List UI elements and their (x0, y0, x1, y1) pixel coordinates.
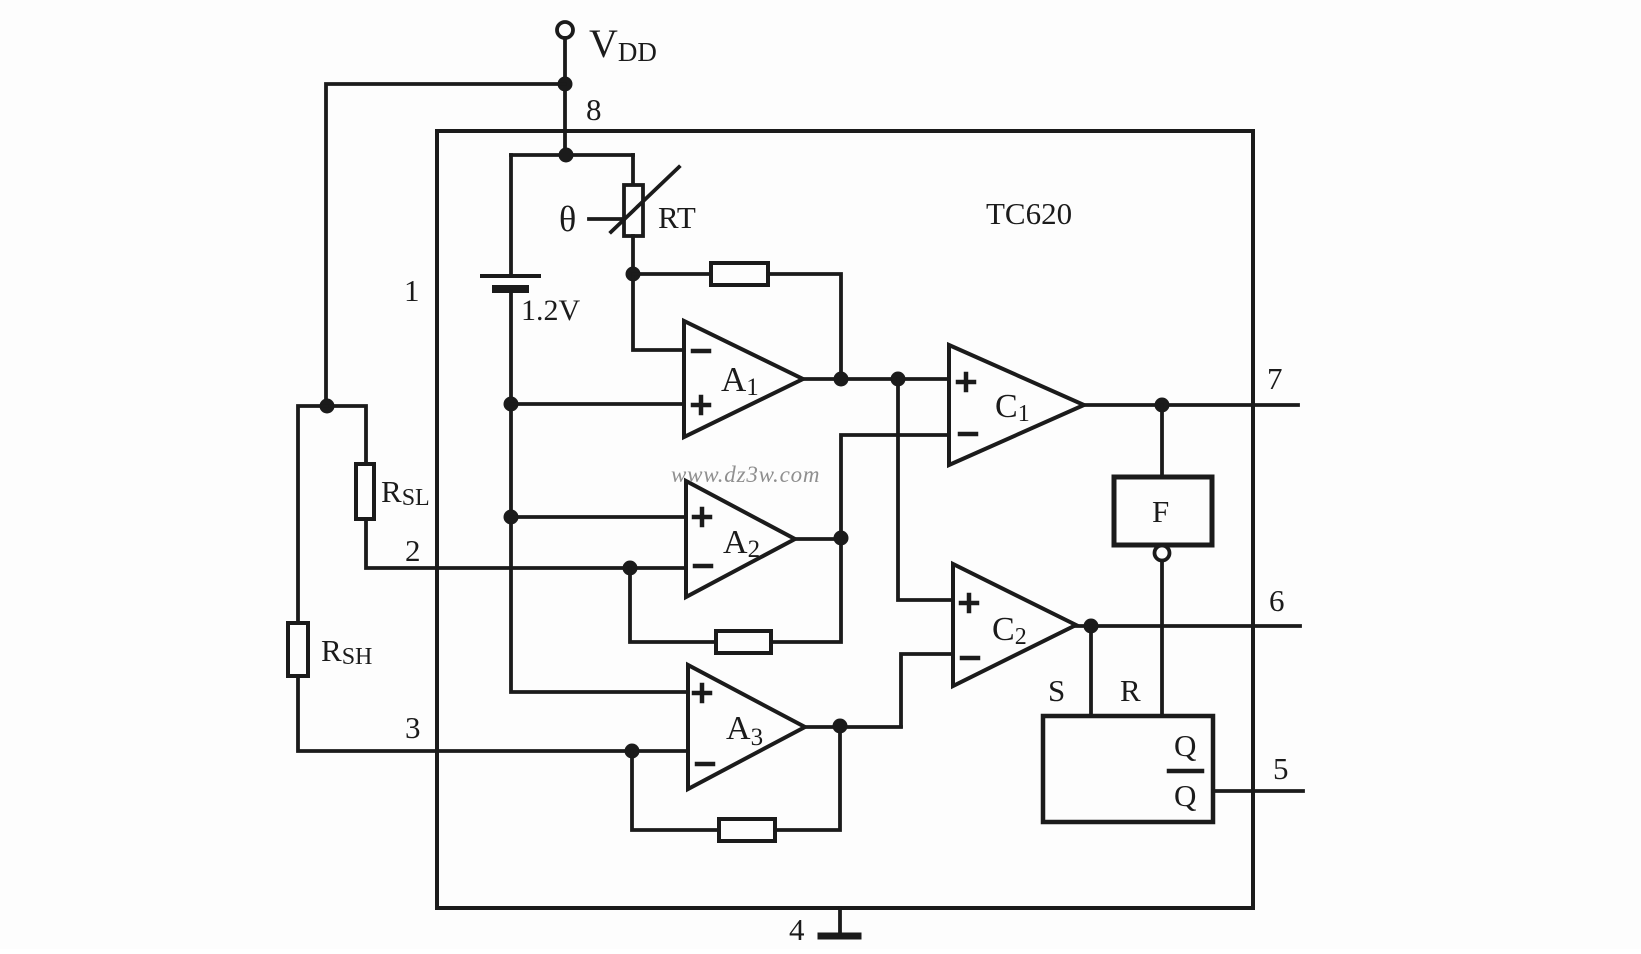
svg-text:RSH: RSH (321, 633, 372, 670)
node C1 output junction (1155, 398, 1170, 413)
wire A2 minus input (630, 566, 686, 570)
node A2 output junction (834, 531, 849, 546)
A3 plus sign (694, 685, 710, 701)
node RT bottom junction (626, 267, 641, 282)
svg-text:F: F (1152, 494, 1169, 529)
battery 1.2V short plate (496, 285, 525, 293)
node internal VDD junction (559, 148, 574, 163)
resistor RSL body (356, 464, 374, 519)
node A1 feedback junction (834, 372, 849, 387)
wire RT bottom (631, 236, 635, 274)
node pin3 junction (625, 744, 640, 759)
battery 1.2V long plate (482, 274, 539, 278)
svg-text:www.dz3w.com: www.dz3w.com (671, 462, 820, 487)
resistor A1 feedback right wire (768, 274, 841, 379)
A2 plus sign (694, 509, 710, 525)
C1 plus sign (958, 374, 974, 390)
thermistor RT body (624, 185, 643, 236)
resistor RSH body (288, 623, 308, 676)
svg-text:Q: Q (1174, 778, 1196, 813)
svg-text:Q: Q (1174, 728, 1196, 763)
resistor A3 feedback left wire (632, 751, 719, 830)
C2 minus sign (962, 656, 978, 661)
wire A2 output (795, 537, 841, 541)
svg-text:S: S (1048, 673, 1065, 708)
svg-text:VDD: VDD (589, 21, 657, 67)
thermistor RT top wire (631, 155, 635, 185)
wire battery reference rail (511, 291, 688, 692)
wire A3 output (805, 725, 901, 729)
wire A1 minus input (633, 274, 684, 350)
node pin2 junction (623, 561, 638, 576)
wire RSL to pin2 (366, 519, 630, 568)
ground pin4 stem (838, 908, 842, 933)
svg-text:5: 5 (1273, 751, 1289, 786)
resistor A1 feedback left wire (633, 272, 711, 276)
terminal VDD circle (557, 22, 573, 38)
resistor A2 feedback right wire (771, 538, 841, 642)
op-amp A3 (688, 665, 805, 789)
comparator C1 (949, 345, 1084, 465)
resistor A1 feedback body (711, 263, 768, 285)
wire RSH to pin3 (298, 676, 632, 751)
wire VDD vertical (563, 38, 567, 155)
resistor A3 feedback right wire (775, 726, 840, 830)
wire C1 to F (1160, 405, 1164, 477)
node A1 to C2 junction (891, 372, 906, 387)
wire C2 output pin6 (1076, 624, 1300, 628)
ground bar (821, 933, 858, 940)
resistor RSL top wire (327, 406, 366, 464)
svg-text:7: 7 (1267, 361, 1283, 396)
resistor A2 feedback body (716, 631, 771, 653)
node A3 output junction (833, 719, 848, 734)
node left branch junction (320, 399, 335, 414)
svg-text:R: R (1120, 673, 1141, 708)
resistor A2 feedback left wire (630, 568, 716, 642)
svg-text:θ: θ (559, 199, 576, 239)
A2 minus sign (695, 564, 711, 569)
op-amp A1 (684, 321, 803, 437)
comparator C2 (953, 564, 1076, 686)
wire internal VDD rail (511, 153, 633, 157)
wire A3 minus input (632, 749, 688, 753)
wire ref to A1+ (511, 402, 684, 406)
wire F to R input (1160, 561, 1164, 716)
resistor RSH top wire (298, 406, 327, 623)
svg-text:6: 6 (1269, 583, 1285, 618)
block F (1114, 477, 1212, 545)
wire C2 to S input (1089, 626, 1093, 716)
A1 plus sign (693, 397, 709, 413)
C1 minus sign (960, 432, 976, 437)
wire A2 to C1 minus (841, 435, 949, 538)
op-amp A2 (686, 481, 795, 597)
svg-text:RSL: RSL (381, 474, 430, 511)
node C2 output junction (1084, 619, 1099, 634)
svg-text:2: 2 (405, 533, 421, 568)
svg-text:TC620: TC620 (986, 196, 1072, 231)
wire Qbar output pin5 (1213, 789, 1303, 793)
C2 plus sign (961, 595, 977, 611)
wire ref to A2+ (511, 515, 686, 519)
A1 minus sign (693, 349, 709, 354)
node VDD junction (558, 77, 573, 92)
svg-text:1: 1 (404, 273, 420, 308)
IC box TC620 outline (437, 131, 1253, 908)
svg-text:RT: RT (658, 200, 696, 235)
svg-text:4: 4 (789, 912, 805, 947)
svg-text:8: 8 (586, 92, 602, 127)
A3 minus sign (697, 762, 713, 767)
wire A1 to C2 plus (898, 379, 953, 600)
wire theta tick (589, 217, 624, 221)
svg-text:1.2V: 1.2V (521, 294, 581, 327)
wire A1 output (803, 377, 949, 381)
wire C1 output pin7 (1084, 403, 1298, 407)
thermistor RT arrow (611, 167, 679, 232)
flip-flop SR box (1043, 716, 1213, 822)
node ref to A2+ (504, 510, 519, 525)
wire VDD to left branch (326, 84, 565, 406)
wire A3 to C2 minus (901, 654, 953, 726)
resistor A3 feedback body (719, 819, 775, 841)
battery 1.2V top wire (509, 155, 513, 274)
node ref to A1+ (504, 397, 519, 412)
Q overbar (1169, 769, 1202, 774)
svg-text:3: 3 (405, 710, 421, 745)
F inversion bubble (1155, 546, 1170, 561)
